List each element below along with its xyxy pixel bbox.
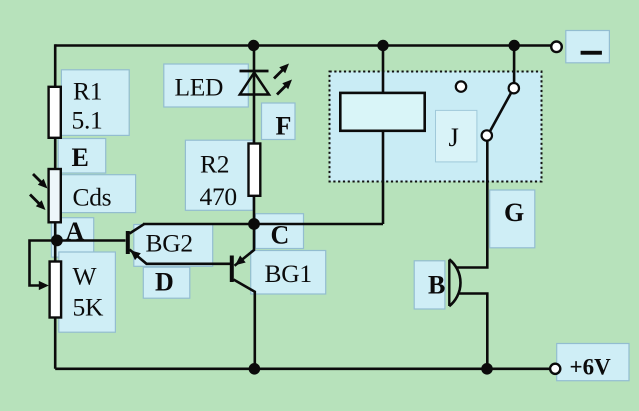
svg-text:D: D bbox=[155, 268, 174, 297]
svg-text:A: A bbox=[66, 217, 85, 246]
svg-text:R1: R1 bbox=[73, 77, 102, 106]
svg-text:F: F bbox=[276, 112, 292, 141]
svg-text:J: J bbox=[449, 122, 459, 152]
svg-text:470: 470 bbox=[200, 182, 237, 211]
svg-text:+6V: +6V bbox=[570, 355, 612, 380]
svg-text:Cds: Cds bbox=[73, 183, 112, 212]
svg-text:R2: R2 bbox=[200, 150, 229, 179]
svg-text:G: G bbox=[504, 198, 524, 227]
svg-text:BG2: BG2 bbox=[146, 229, 193, 258]
svg-text:B: B bbox=[428, 271, 445, 300]
svg-text:E: E bbox=[72, 143, 89, 172]
svg-text:C: C bbox=[271, 221, 290, 250]
svg-text:W: W bbox=[73, 262, 98, 291]
svg-text:5K: 5K bbox=[73, 293, 104, 322]
svg-text:LED: LED bbox=[175, 73, 224, 102]
svg-text:5.1: 5.1 bbox=[72, 106, 103, 135]
svg-text:BG1: BG1 bbox=[265, 259, 312, 288]
